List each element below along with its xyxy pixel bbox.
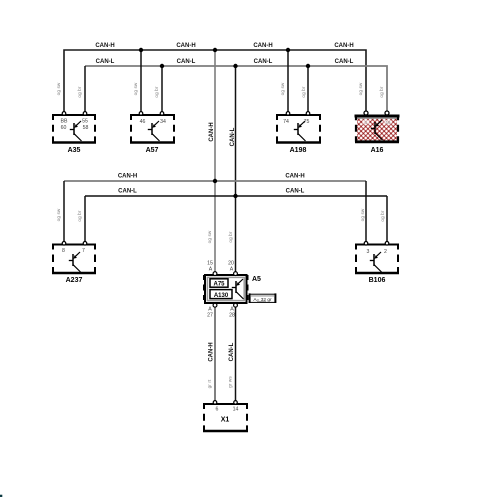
svg-text:6: 6: [216, 407, 219, 413]
svg-text:A: A: [209, 267, 213, 273]
net label CAN-L second row: [118, 189, 304, 195]
svg-text:og br: og br: [379, 86, 384, 98]
wire CAN-H top bus: [64, 50, 366, 114]
svg-text:27: 27: [207, 313, 213, 319]
svg-text:14: 14: [233, 407, 239, 413]
svg-text:55: 55: [82, 119, 88, 125]
pin label A5 pin A/28 bottom: [229, 307, 235, 319]
pin label A16 pin 16: [384, 120, 392, 125]
svg-text:CAN-L: CAN-L: [177, 59, 196, 65]
wire A5 to X1 CAN-L: [235, 305, 237, 403]
svg-text:A16: A16: [371, 147, 384, 154]
svg-text:A237: A237: [66, 277, 83, 284]
svg-text:og br: og br: [380, 210, 385, 222]
svg-text:A: A: [230, 267, 234, 273]
svg-text:gr rt: gr rt: [207, 379, 212, 388]
pin label A16 pin 1: [363, 120, 370, 125]
subunit box A75: [210, 279, 228, 288]
pin label A5 pin A/27 bottom: [207, 307, 213, 319]
control unit A5: [204, 272, 248, 307]
pin label A5 pin 15/A top: [207, 261, 213, 273]
wire CAN-L second row bus: [85, 195, 387, 197]
svg-text:CAN-H: CAN-H: [209, 122, 215, 141]
junction dot second row CAN-L: [233, 194, 237, 198]
wire B106 pin drops: [366, 181, 387, 244]
svg-text:3: 3: [367, 249, 370, 255]
svg-text:A57: A57: [146, 147, 159, 154]
svg-text:og sw: og sw: [56, 208, 61, 221]
svg-text:75: 75: [304, 119, 310, 125]
svg-text:CAN-L: CAN-L: [229, 342, 235, 361]
svg-text:A130: A130: [214, 293, 229, 299]
junction dots top CAN-H: [139, 48, 290, 52]
svg-text:CAN-H: CAN-H: [209, 342, 215, 361]
control unit B106: [355, 242, 399, 275]
wire CAN-L top bus: [85, 66, 387, 114]
svg-text:46: 46: [140, 119, 146, 125]
svg-text:og sw: og sw: [133, 82, 138, 95]
svg-text:2: 2: [384, 249, 387, 255]
wire CAN-H second row bus: [64, 180, 366, 182]
svg-text:16: 16: [385, 120, 391, 125]
wire A237 pin drops: [64, 181, 85, 244]
pin label A35 pin 55/58: [82, 119, 88, 132]
svg-text:74: 74: [283, 119, 289, 125]
svg-text:CAN-L: CAN-L: [96, 59, 115, 65]
svg-text:A75: A75: [213, 282, 225, 288]
pin label A5 pin 20/A top: [228, 261, 234, 273]
svg-text:CAN-L: CAN-L: [118, 189, 137, 195]
svg-text:CAN-H: CAN-H: [334, 43, 353, 49]
wire A35 pin 58 drop: [84, 66, 86, 114]
svg-text:CAN-L: CAN-L: [286, 189, 305, 195]
wire CAN-H trunk vertical: [214, 50, 216, 273]
svg-text:CAN-L: CAN-L: [335, 59, 354, 65]
svg-text:X1: X1: [221, 417, 230, 424]
page corner mark: [0, 495, 2, 497]
svg-text:CAN-L: CAN-L: [254, 59, 273, 65]
svg-text:A5: A5: [252, 276, 261, 283]
svg-text:og br: og br: [228, 231, 233, 243]
net label CAN-H second row: [118, 174, 305, 180]
svg-text:A35: A35: [68, 147, 81, 154]
control unit A35: [52, 112, 96, 144]
svg-text:og sw: og sw: [360, 208, 365, 221]
svg-text:og sw: og sw: [280, 82, 285, 95]
svg-text:CAN-H: CAN-H: [118, 174, 137, 180]
svg-text:B106: B106: [369, 277, 386, 284]
svg-text:A= 32 gr: A= 32 gr: [253, 297, 272, 303]
svg-text:og sw: og sw: [56, 82, 61, 95]
wire CAN-L trunk vertical: [235, 66, 237, 273]
control unit A198: [276, 112, 321, 144]
connector X1: [203, 401, 248, 432]
svg-text:og sw: og sw: [358, 82, 363, 95]
svg-text:BB: BB: [61, 119, 68, 125]
control unit A16 highlighted: [355, 111, 400, 143]
svg-text:60: 60: [61, 125, 67, 131]
svg-text:og br: og br: [301, 86, 306, 98]
svg-text:og br: og br: [77, 86, 82, 98]
svg-text:58: 58: [83, 125, 89, 131]
note box A= 32 gr: [250, 293, 276, 303]
svg-text:8: 8: [62, 248, 65, 254]
svg-text:CAN-H: CAN-H: [95, 43, 114, 49]
wire A57 pin drops: [141, 50, 162, 114]
svg-text:CAN-H: CAN-H: [176, 43, 195, 49]
junction dots top CAN-L: [160, 64, 310, 68]
net label CAN-H top row: [95, 43, 353, 49]
control unit A237: [52, 242, 96, 275]
svg-text:og sw: og sw: [207, 230, 212, 243]
svg-text:CAN-H: CAN-H: [253, 43, 272, 49]
svg-text:A198: A198: [290, 147, 307, 154]
svg-text:7: 7: [82, 248, 85, 254]
wire A5 to X1 CAN-H: [214, 305, 216, 403]
junction dot second row CAN-H: [213, 179, 217, 183]
svg-text:CAN-H: CAN-H: [285, 174, 304, 180]
svg-text:og br: og br: [154, 86, 159, 98]
svg-text:CAN-L: CAN-L: [230, 127, 236, 146]
svg-text:34: 34: [160, 119, 166, 125]
svg-text:gr ws: gr ws: [228, 376, 233, 388]
net label CAN-L top row: [96, 59, 354, 65]
svg-text:28: 28: [229, 313, 235, 319]
wire A198 pin drops: [288, 50, 308, 114]
control unit A57: [130, 112, 175, 144]
subunit box A130: [210, 290, 232, 299]
pin label A35 pin BB/60: [61, 119, 68, 132]
svg-text:og br: og br: [77, 210, 82, 222]
